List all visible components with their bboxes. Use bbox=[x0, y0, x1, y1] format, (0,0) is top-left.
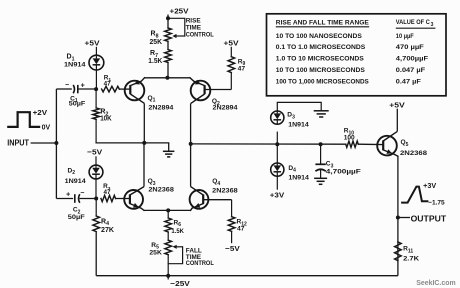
svg-text:Q4: Q4 bbox=[212, 178, 220, 187]
label R1 bbox=[104, 74, 112, 83]
node C1/R1/R2 junction bbox=[94, 87, 98, 91]
resistor R12 47 bbox=[228, 217, 235, 232]
resistor R2 10K bbox=[93, 108, 100, 119]
watermark SeekIC.com bbox=[416, 280, 456, 287]
svg-text:−: − bbox=[80, 190, 84, 197]
wire -5V to D2 bbox=[95, 156, 97, 165]
svg-text:−5V: −5V bbox=[225, 244, 240, 253]
label C2 polarity plus bbox=[66, 192, 70, 199]
capacitor C2 50uF bbox=[75, 194, 96, 203]
ground symbol (C3) bbox=[314, 178, 327, 184]
label 2N2894 (Q2) bbox=[213, 104, 238, 111]
wire Q3-Q4 emitter rail bbox=[144, 209, 191, 211]
label FALL TIME CONTROL bbox=[186, 248, 214, 267]
label 2N2368 (Q5) bbox=[400, 150, 427, 157]
svg-text:SeekIC.com: SeekIC.com bbox=[416, 280, 456, 287]
label -5V (R12) bbox=[225, 244, 240, 253]
node -25V junction bbox=[166, 274, 170, 278]
label 4700uuF bbox=[326, 169, 361, 176]
wire Q4 base bbox=[203, 199, 231, 201]
transistor Q1 2N2894 bbox=[125, 78, 145, 104]
wire R8-R7 bbox=[167, 41, 169, 49]
node Q1/Q3 collector junction bbox=[142, 141, 146, 145]
label R4 bbox=[101, 218, 109, 227]
node signal rail junction bbox=[189, 142, 193, 146]
node input junction bbox=[54, 141, 58, 145]
table row 5 bbox=[276, 79, 421, 86]
label 50uF bbox=[69, 101, 86, 108]
svg-text:10 TO 100 MICROSECONDS: 10 TO 100 MICROSECONDS bbox=[276, 67, 365, 74]
label 10K bbox=[100, 116, 112, 123]
svg-text:D3: D3 bbox=[287, 112, 295, 121]
svg-text:1N914: 1N914 bbox=[288, 122, 309, 129]
wire C2 left bbox=[56, 198, 73, 200]
label RISE TIME CONTROL bbox=[186, 17, 214, 38]
label -1.75 bbox=[428, 199, 445, 206]
pot wiper arrow R5 bbox=[173, 245, 183, 249]
diode D4 1N914 bbox=[271, 163, 284, 176]
table header rise and fall time range bbox=[276, 19, 369, 27]
svg-text:25K: 25K bbox=[149, 250, 162, 257]
wire R5 to bottom rail bbox=[167, 255, 169, 276]
label D2 bbox=[68, 167, 76, 176]
label 0V bbox=[42, 125, 51, 132]
wire D3 lower bbox=[276, 132, 278, 145]
svg-text:1.5K: 1.5K bbox=[148, 58, 162, 65]
svg-text:1N914: 1N914 bbox=[288, 174, 309, 181]
resistor R10 100 bbox=[346, 141, 358, 147]
svg-text:+5V: +5V bbox=[85, 38, 101, 47]
diode D3 1N914 bbox=[271, 111, 284, 124]
wire R1 to Q1 base bbox=[119, 88, 130, 90]
svg-text:+5V: +5V bbox=[389, 100, 406, 109]
label C2 bbox=[73, 207, 81, 216]
svg-text:0.1 TO 1.0 MICROSECONDS: 0.1 TO 1.0 MICROSECONDS bbox=[276, 44, 366, 51]
wire output stub bbox=[398, 217, 410, 219]
label OUTPUT bbox=[411, 214, 447, 223]
label 1.5K (R6) bbox=[171, 228, 184, 235]
svg-text:4,700µµF: 4,700µµF bbox=[396, 55, 428, 62]
svg-text:VALUE OF C: VALUE OF C bbox=[396, 19, 430, 26]
diode D2 1N914 bbox=[89, 165, 103, 179]
svg-text:CONTROL: CONTROL bbox=[186, 260, 214, 267]
label R6 bbox=[174, 219, 182, 228]
label +3V bbox=[270, 191, 285, 200]
svg-text:D4: D4 bbox=[288, 165, 296, 174]
svg-text:−5V: −5V bbox=[87, 148, 103, 157]
svg-text:−1.75: −1.75 bbox=[428, 199, 445, 206]
wire R6 upper bbox=[167, 210, 169, 218]
svg-text:1N914: 1N914 bbox=[65, 178, 86, 185]
resistor R9 47 bbox=[228, 57, 235, 73]
label +5V (D1) bbox=[85, 38, 101, 47]
wire Q2 base bbox=[205, 89, 232, 91]
svg-text:2N2894: 2N2894 bbox=[213, 104, 238, 111]
label D3 bbox=[287, 112, 295, 121]
wire D4 upper bbox=[276, 144, 278, 163]
svg-text:25K: 25K bbox=[150, 39, 163, 46]
svg-text:100: 100 bbox=[344, 135, 355, 142]
label C2 polarity minus bbox=[80, 190, 84, 197]
label 100 bbox=[344, 135, 355, 142]
node output junction bbox=[396, 216, 400, 220]
wire +5V to R9 bbox=[230, 47, 232, 57]
label R5 bbox=[151, 242, 159, 251]
wire bottom rail bbox=[96, 275, 398, 277]
node C2/R3/R4 junction bbox=[94, 197, 98, 201]
label R9 bbox=[238, 58, 246, 67]
resistor R8 25K (rise time pot) bbox=[165, 28, 172, 41]
label 27K bbox=[101, 227, 114, 234]
label Q2 bbox=[212, 98, 220, 107]
label R3 bbox=[103, 183, 111, 192]
wire +25V supply stem bbox=[167, 15, 169, 29]
resistor R4 27K bbox=[93, 216, 100, 232]
svg-text:D2: D2 bbox=[68, 167, 76, 176]
svg-text:INPUT: INPUT bbox=[7, 139, 29, 148]
label 50uF (C2) bbox=[68, 214, 85, 221]
svg-text:−25V: −25V bbox=[170, 279, 191, 288]
node emitter rail junction bbox=[165, 76, 169, 80]
capacitor C1 50uF bbox=[73, 85, 96, 93]
label 2N2894 (Q1) bbox=[148, 104, 173, 111]
ground symbol (D3) bbox=[314, 111, 329, 117]
wire ground rail bbox=[96, 142, 169, 144]
svg-text:47: 47 bbox=[237, 225, 245, 232]
svg-text:2N2368: 2N2368 bbox=[212, 188, 238, 195]
wire signal rail bbox=[191, 143, 346, 145]
icon input pulse waveform bbox=[8, 112, 39, 127]
label Q5 bbox=[401, 139, 409, 148]
wire D1 to node bbox=[95, 70, 97, 89]
svg-text:RISE: RISE bbox=[186, 17, 202, 24]
svg-text:+5V: +5V bbox=[224, 38, 240, 47]
wire Q3 collector bbox=[143, 143, 145, 187]
label R12 bbox=[237, 219, 248, 228]
label 1N914 (D2) bbox=[65, 178, 86, 185]
wire Q5 collector bbox=[396, 109, 398, 132]
svg-text:2.7K: 2.7K bbox=[403, 255, 419, 262]
label 2.7K bbox=[403, 255, 419, 262]
transistor Q3 2N2368 bbox=[124, 187, 144, 211]
svg-text:47: 47 bbox=[104, 80, 111, 87]
svg-text:1.0 TO 10 MICROSECONDS: 1.0 TO 10 MICROSECONDS bbox=[276, 55, 364, 62]
resistor R1 47 bbox=[102, 86, 120, 92]
resistor R6 1.5K bbox=[165, 218, 172, 232]
label C1 polarity minus bbox=[65, 82, 69, 89]
wire +5V to D1 bbox=[95, 47, 97, 55]
pot wiper loop R8 bbox=[168, 18, 185, 36]
svg-text:27K: 27K bbox=[101, 227, 114, 234]
svg-text:OUTPUT: OUTPUT bbox=[411, 214, 447, 223]
svg-text:R8: R8 bbox=[151, 31, 159, 40]
svg-text:CONTROL: CONTROL bbox=[186, 32, 214, 39]
svg-text:TIME: TIME bbox=[186, 24, 202, 31]
svg-text:+25V: +25V bbox=[170, 6, 190, 15]
transistor Q2 2N2894 bbox=[190, 78, 210, 104]
label INPUT bbox=[7, 139, 29, 148]
label R2 bbox=[100, 109, 108, 118]
resistor R7 1.5K bbox=[165, 50, 172, 63]
svg-text:+: + bbox=[81, 83, 85, 90]
svg-text:−: − bbox=[65, 82, 69, 89]
svg-text:4,700µµF: 4,700µµF bbox=[326, 169, 361, 176]
label +2V bbox=[33, 110, 48, 117]
wire R4 to bottom rail bbox=[95, 232, 97, 276]
ground symbol (center) bbox=[163, 151, 175, 157]
diode D1 1N914 bbox=[89, 55, 104, 70]
wire Q4 base to R12 bbox=[231, 200, 233, 217]
wire R12 to -5V bbox=[231, 231, 233, 243]
svg-text:Q1: Q1 bbox=[148, 95, 156, 104]
label C3 bbox=[326, 161, 334, 170]
label 2N2368 (Q4) bbox=[212, 188, 238, 195]
svg-text:3: 3 bbox=[431, 22, 434, 28]
svg-text:Q5: Q5 bbox=[401, 139, 409, 148]
wire input stub bbox=[31, 142, 57, 144]
label 47 (R12) bbox=[237, 225, 245, 232]
wire ground stem bbox=[168, 143, 170, 151]
svg-text:2N2368: 2N2368 bbox=[400, 150, 427, 157]
label +25V bbox=[170, 6, 190, 15]
label 47 (R1) bbox=[104, 80, 111, 87]
table row 2 bbox=[276, 44, 424, 51]
label R11 bbox=[403, 246, 413, 255]
wire Q1-Q2 emitter rail bbox=[145, 77, 191, 79]
svg-text:R4: R4 bbox=[101, 218, 109, 227]
wire R7 to emitter rail bbox=[167, 63, 169, 78]
label +5V (Q5) bbox=[389, 100, 406, 109]
label 47 (R9) bbox=[238, 66, 246, 73]
wire C3 upper bbox=[320, 144, 322, 164]
node R8 top junction bbox=[166, 16, 170, 20]
svg-text:0.47 µF: 0.47 µF bbox=[396, 79, 421, 86]
svg-text:47: 47 bbox=[238, 66, 246, 73]
svg-text:2N2894: 2N2894 bbox=[148, 104, 173, 111]
label Q1 bbox=[148, 95, 156, 104]
wire R10 to Q5 base bbox=[358, 143, 383, 145]
table row 4 bbox=[276, 67, 425, 74]
label R7 bbox=[150, 50, 158, 59]
svg-text:+: + bbox=[66, 192, 70, 199]
resistor R5 25K (fall time pot) bbox=[165, 240, 172, 255]
wire Q2/Q4 collector bbox=[190, 104, 192, 187]
wire R2 to ground rail bbox=[95, 119, 97, 143]
label 1N914 bbox=[64, 61, 86, 68]
label +5V (R9) bbox=[224, 38, 240, 47]
wire C1 left bbox=[56, 88, 71, 90]
wire R3 to Q3 base bbox=[116, 198, 130, 200]
node emitter rail junction (R6) bbox=[166, 208, 170, 212]
svg-text:47: 47 bbox=[104, 189, 111, 196]
label 1.5K bbox=[148, 58, 162, 65]
svg-text:100 TO 1,000 MICROSECONDS: 100 TO 1,000 MICROSECONDS bbox=[276, 79, 369, 86]
svg-text:0.047 µF: 0.047 µF bbox=[396, 67, 425, 74]
label C1 bbox=[70, 95, 78, 104]
label R8 bbox=[151, 31, 159, 40]
svg-text:2N2368: 2N2368 bbox=[148, 186, 174, 193]
svg-text:470 µµF: 470 µµF bbox=[396, 44, 424, 51]
wire R6-R5 bbox=[167, 232, 169, 240]
svg-text:10 TO 100 NANOSECONDS: 10 TO 100 NANOSECONDS bbox=[276, 33, 362, 40]
resistor R3 47 bbox=[101, 195, 116, 201]
svg-text:+3V: +3V bbox=[423, 183, 436, 190]
svg-text:1N914: 1N914 bbox=[64, 61, 86, 68]
label 2N2368 (Q3) bbox=[148, 186, 174, 193]
resistor R11 2.7K bbox=[395, 242, 402, 261]
label D4 bbox=[288, 165, 296, 174]
svg-text:RISE AND FALL TIME RANGE: RISE AND FALL TIME RANGE bbox=[276, 19, 369, 26]
node D3/D4 junction bbox=[275, 142, 279, 146]
label R10 bbox=[344, 128, 355, 137]
label -25V bbox=[170, 279, 191, 288]
svg-text:50µF: 50µF bbox=[68, 214, 85, 221]
label Q4 bbox=[212, 178, 220, 187]
wire D4 to +3V bbox=[276, 176, 278, 190]
table border bbox=[267, 14, 447, 96]
label +3V (output) bbox=[423, 183, 436, 190]
wire -25V stub bbox=[167, 276, 169, 280]
wire D3 to ground bbox=[277, 102, 321, 111]
svg-text:R11: R11 bbox=[403, 246, 413, 255]
table row 1 bbox=[276, 33, 414, 40]
svg-text:+2V: +2V bbox=[33, 110, 48, 117]
wire input vertical bbox=[55, 89, 57, 199]
svg-text:+3V: +3V bbox=[270, 191, 285, 200]
wire node to R4 bbox=[95, 199, 97, 217]
transistor Q4 2N2368 bbox=[190, 187, 209, 211]
node C3 junction bbox=[319, 142, 323, 146]
label -5V (D2) bbox=[87, 148, 103, 157]
icon output ramp waveform bbox=[402, 187, 427, 203]
label 1N914 (D4) bbox=[288, 174, 309, 181]
svg-text:10 µµF: 10 µµF bbox=[396, 33, 414, 40]
svg-text:1.5K: 1.5K bbox=[171, 228, 184, 235]
table header value of C3 bbox=[396, 19, 436, 28]
svg-text:10K: 10K bbox=[100, 116, 112, 123]
svg-text:0V: 0V bbox=[42, 125, 51, 132]
capacitor C3 4700uuF bbox=[315, 164, 325, 178]
transistor Q5 2N2368 bbox=[377, 131, 398, 156]
pot wiper loop R5 bbox=[168, 247, 182, 264]
label 1N914 (D3) bbox=[288, 122, 309, 129]
wire Q1 collector bbox=[143, 103, 145, 143]
label 47 (R3) bbox=[104, 189, 111, 196]
table row 3 bbox=[276, 55, 428, 62]
svg-text:50µF: 50µF bbox=[69, 101, 86, 108]
pot wiper arrow R8 bbox=[172, 34, 184, 38]
wire node to R2 bbox=[95, 89, 97, 108]
wire D2 to node bbox=[95, 179, 97, 199]
label 25K (R5) bbox=[149, 250, 162, 257]
label 25K bbox=[150, 39, 163, 46]
wire Q5 emitter bbox=[397, 156, 399, 276]
label Q3 bbox=[148, 178, 156, 187]
label D1 bbox=[67, 54, 75, 63]
wire R9 to Q2 base bbox=[230, 73, 232, 90]
label C1 polarity plus bbox=[81, 83, 85, 90]
